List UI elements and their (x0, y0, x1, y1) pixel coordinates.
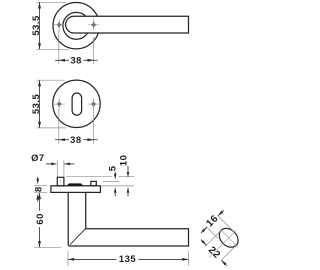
fixing screw mark left (view1) (56, 21, 63, 29)
dim 53.5 (rose diameter, view1) extension lines (37, 1, 66, 3)
svg-text:53.5: 53.5 (30, 94, 41, 114)
lever grip (front view, stadium shape) (66, 16, 189, 33)
svg-text:8: 8 (33, 186, 44, 192)
dim 38 (view1) dimension line + arrows (55, 59, 69, 61)
dim 5 arrow up (114, 190, 116, 196)
rose outer circle (front view) (53, 3, 99, 49)
dim 60 dimension line + arrows (39, 193, 41, 211)
fixing post right (91, 181, 97, 185)
dim 135 dimension line + arrows (68, 258, 117, 260)
keyhole slot (72, 93, 82, 115)
centerline minor axis (extended to dim 22) (209, 230, 236, 257)
dim 16 dimension line + arrows (218, 210, 224, 216)
svg-text:5: 5 (106, 165, 117, 171)
grip cross-section ellipse (216, 225, 242, 251)
fixing screw mark left (view2) (56, 100, 63, 108)
centerline major axis (220, 229, 238, 247)
svg-text:38: 38 (70, 134, 82, 145)
dim 38 (view1) extension lines from screw marks (58, 30, 60, 65)
fixing screw mark right (view1) (90, 21, 97, 29)
dim 16 tangent ext lines (218, 216, 234, 232)
lever handle L-shape (side view) (68, 193, 188, 246)
dim Ø7 extension lines (56, 160, 58, 176)
spindle (square shaft) (57, 177, 64, 186)
ref line spindle top (for dim 10/5) (66, 176, 112, 178)
svg-text:38: 38 (70, 55, 82, 66)
svg-text:135: 135 (119, 253, 136, 264)
escutcheon circle (53, 80, 100, 127)
rose plate (side view) (51, 186, 101, 193)
svg-text:10: 10 (117, 155, 128, 167)
dim 135 extension lines (67, 251, 69, 266)
dim 60 extension line bottom (34, 246, 61, 248)
dim 10 arrow down (127, 166, 129, 172)
bend edge line (miter) (70, 229, 86, 245)
ref line plate top extended (101, 185, 135, 187)
dim 5 arrow down (114, 172, 116, 174)
dim 22 tangent ext lines (205, 230, 222, 247)
ref line post top (dim 5) (103, 181, 119, 183)
dim 22 dimension line + arrows (201, 240, 207, 246)
rose inner circle (63, 12, 90, 39)
dim 38 (view2) dimension line + arrows (55, 139, 69, 141)
svg-text:53.5: 53.5 (30, 15, 41, 35)
dim 53.5 (view2) dimension line + arrows (39, 80, 41, 128)
fixing screw mark right (view2) (90, 100, 97, 108)
dim 10 arrow up (127, 190, 129, 196)
svg-text:Ø7: Ø7 (31, 152, 45, 163)
dim 53.5 (view2) extension lines (37, 79, 65, 81)
dim 53.5 (view1) dimension line + arrows (39, 2, 41, 49)
dim 38 (view2) extension lines (58, 109, 60, 144)
bearing boss (black) (67, 183, 83, 185)
dim 8 extension lines (34, 185, 47, 187)
svg-text:60: 60 (34, 213, 45, 225)
dim Ø7 leader + arrows (46, 163, 52, 165)
dim 8 arrows outside (37, 177, 39, 180)
